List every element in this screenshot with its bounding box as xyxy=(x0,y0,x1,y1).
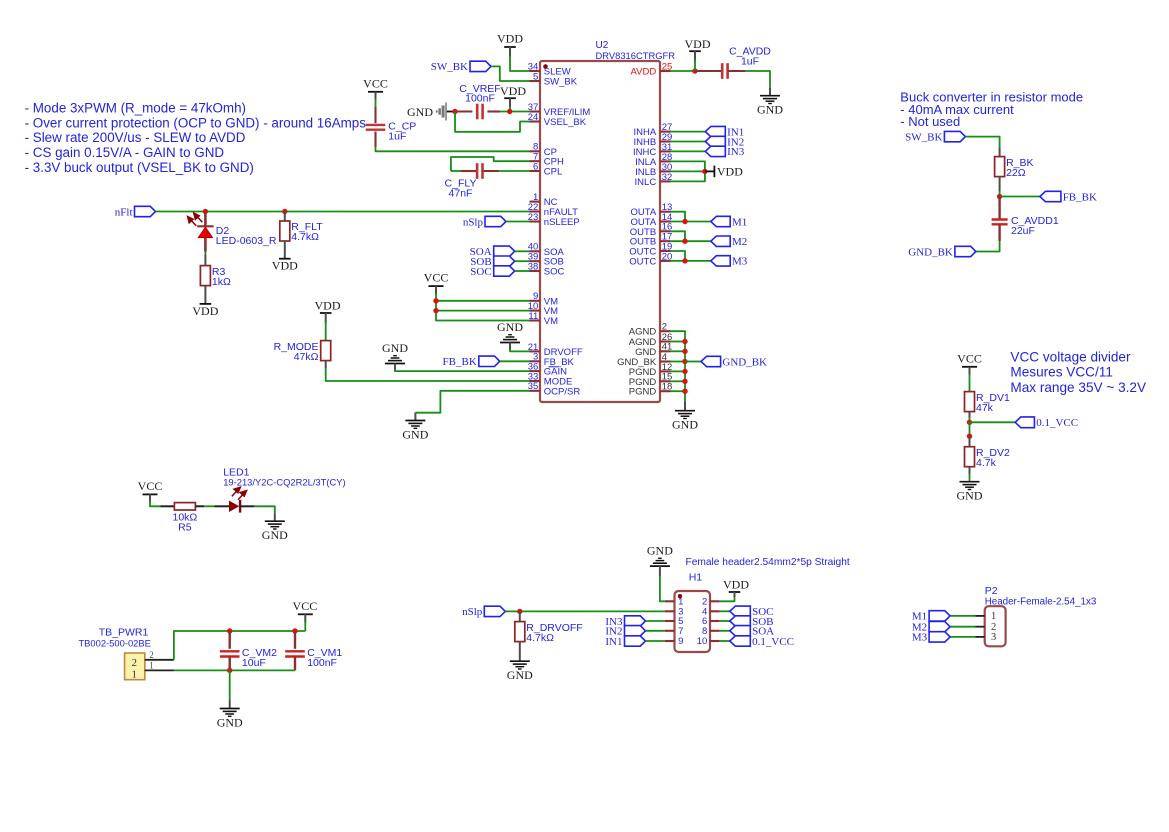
capacitor C_AVDD1 22uF xyxy=(992,215,1059,237)
resistor R_DV2 4.7k xyxy=(965,447,1011,469)
net flag SOB (H1) xyxy=(730,616,774,628)
wire H1 pin 4 to flag SOC xyxy=(720,610,730,612)
svg-text:GND_BK: GND_BK xyxy=(722,356,767,368)
svg-text:DRV8316CTRGFR: DRV8316CTRGFR xyxy=(596,50,676,61)
resistor R5 10k xyxy=(173,503,198,534)
wire GND bus to GND_BK flag xyxy=(685,361,701,363)
wire H1 pin 8 to flag SOA xyxy=(720,630,730,632)
note text block: buck converter xyxy=(900,90,1083,130)
svg-text:SW_BK: SW_BK xyxy=(544,77,578,88)
U2 pin 30 INLB xyxy=(635,162,672,178)
wire VDD to U2 pin 34 SLEW xyxy=(510,55,530,71)
svg-text:VDD: VDD xyxy=(315,299,341,313)
wire C_FLY left xyxy=(451,170,461,172)
wire SOC to U2 xyxy=(515,270,530,272)
wire H1 pin 2 to VDD xyxy=(720,597,735,601)
net flag IN2 (H1) xyxy=(605,626,645,638)
U2 pin 29 INHB xyxy=(633,132,672,148)
wire VCC to R5 xyxy=(150,500,161,506)
svg-text:1: 1 xyxy=(149,660,154,670)
svg-text:LED-0603_R: LED-0603_R xyxy=(216,235,277,247)
net flag M2 xyxy=(711,236,747,248)
wire nSlp to U2 pin 23 nSLEEP xyxy=(506,221,530,223)
svg-text:VCC: VCC xyxy=(363,76,388,90)
svg-text:GND: GND xyxy=(507,668,533,682)
svg-text:Female header2.54mm2*5p Straig: Female header2.54mm2*5p Straight xyxy=(686,557,850,568)
junction (0.1_VCC) xyxy=(967,420,972,425)
svg-text:VCC: VCC xyxy=(957,351,982,365)
wire divider mid xyxy=(969,422,971,436)
wire H1 pin 10 to flag 0.1_VCC xyxy=(720,640,730,642)
U2 pin 36 GAIN xyxy=(528,362,567,378)
wire VM pin 9 xyxy=(436,300,530,302)
wire GND arrow to C_VREF xyxy=(455,110,472,112)
svg-text:nSlp: nSlp xyxy=(462,606,483,618)
junction (GND bus pin 26) xyxy=(682,339,687,344)
wire U2 pin 30 INLB xyxy=(671,170,705,172)
svg-text:Mesures VCC/11: Mesures VCC/11 xyxy=(1010,365,1113,380)
svg-text:- Slew rate 200V/us - SLEW to: - Slew rate 200V/us - SLEW to AVDD xyxy=(25,130,246,145)
wire C_AVDD to GND xyxy=(745,71,770,88)
U2 pin 6 CPL xyxy=(530,161,563,177)
H1 pin 8 xyxy=(702,626,720,637)
svg-text:GND: GND xyxy=(497,320,523,334)
wire U2 pin 18 to GND bus xyxy=(671,390,686,392)
svg-text:VDD: VDD xyxy=(272,259,298,273)
junction (VM 10) xyxy=(433,308,438,313)
leg C_VM1 top xyxy=(294,631,296,649)
U2 pin 41 GND xyxy=(635,342,672,358)
P2 pin 1 xyxy=(976,611,997,622)
junction (GND bus pin 15) xyxy=(682,379,687,384)
P2 pin 2 xyxy=(976,622,997,633)
leg R_FLT bottom xyxy=(284,241,286,259)
net flag IN2 xyxy=(705,136,744,148)
connector TB_PWR1 TB002-500-02BE xyxy=(78,627,150,681)
wire U2 pin 12 to GND bus xyxy=(671,370,686,372)
ground GND (DRVOFF) xyxy=(497,320,523,351)
wire D2 to R3 xyxy=(204,252,206,255)
svg-text:H1: H1 xyxy=(689,572,703,584)
net flag nSlp (U2) xyxy=(463,216,506,228)
ground GND (R_DRVOFF) xyxy=(507,661,533,682)
capacitor C_VM1 100nF xyxy=(285,647,342,669)
U2 pin 24 VSEL_BK xyxy=(528,112,587,128)
leg C_AVDD right xyxy=(728,70,746,72)
svg-text:VCC: VCC xyxy=(138,479,163,493)
note text block: configuration notes xyxy=(25,100,367,175)
U2 pin 5 SW_BK xyxy=(530,71,578,87)
leg R_DV2 bottom xyxy=(969,467,971,474)
wire U2 pin 13 OUT to junction xyxy=(671,212,686,222)
junction (VM 9) xyxy=(433,298,438,303)
net flag M2 (P2) xyxy=(912,622,950,634)
svg-text:GND: GND xyxy=(647,544,673,558)
svg-text:INLC: INLC xyxy=(635,177,657,188)
svg-text:GND: GND xyxy=(382,341,408,355)
svg-text:1kΩ: 1kΩ xyxy=(212,276,231,288)
wire VCC to R_DV1 xyxy=(969,374,971,392)
H1 pin 10 xyxy=(697,636,720,647)
wire FB_BK to U2 pin 3 xyxy=(500,360,530,362)
ground GND (GAIN) xyxy=(382,341,408,371)
wire U2 pin 26 to GND bus xyxy=(671,341,686,343)
net flag nFlt xyxy=(115,206,156,218)
TB_PWR1 pin 1 xyxy=(145,660,174,670)
wire R_DV2 to GND xyxy=(969,474,971,482)
power VCC (VM) xyxy=(424,271,449,295)
svg-text:SOC: SOC xyxy=(470,266,491,278)
junction (GND bus pin 12) xyxy=(682,369,687,374)
net flag SW_BK (buck) xyxy=(905,131,965,143)
power VDD (SLEW) xyxy=(497,32,523,58)
wire R_MODE to U2 pin 33 MODE xyxy=(326,368,530,381)
H1 pin 1 xyxy=(665,597,684,608)
svg-text:Max range 35V ~ 3.2V: Max range 35V ~ 3.2V xyxy=(1010,380,1146,395)
leg C_VM2 top xyxy=(228,631,230,649)
junction (OUT M1) xyxy=(682,219,687,224)
U2 pin 22 nFAULT xyxy=(528,202,578,218)
leg R_BK bottom xyxy=(999,177,1001,191)
U2 pin 37 VREF/ILIM xyxy=(528,102,591,118)
svg-text:SOC: SOC xyxy=(544,267,565,278)
leg R_DRVOFF top xyxy=(519,611,521,621)
wire U2 pin 15 to GND bus xyxy=(671,380,686,382)
ground GND (LED1) xyxy=(262,513,288,542)
wire junction to 0.1_VCC flag xyxy=(970,421,1016,423)
svg-text:PGND: PGND xyxy=(629,387,657,398)
junction (C_VM2 top) xyxy=(227,628,232,633)
power VDD (VREF) xyxy=(500,84,526,108)
svg-text:47nF: 47nF xyxy=(449,187,473,199)
wire TB pin2 to VM rail xyxy=(174,631,305,660)
svg-text:VM: VM xyxy=(544,316,558,327)
resistor R_MODE 47k xyxy=(274,341,331,363)
svg-text:10: 10 xyxy=(697,636,708,647)
leg R_DV1 bottom xyxy=(969,412,971,418)
ground GND (C_AVDD) xyxy=(757,88,783,117)
resistor R3 1k xyxy=(200,266,231,288)
svg-text:M2: M2 xyxy=(732,236,747,248)
wire CPH loop xyxy=(451,157,530,171)
svg-text:11: 11 xyxy=(528,311,538,322)
svg-text:VSEL_BK: VSEL_BK xyxy=(544,117,587,128)
net flag SW_BK xyxy=(431,61,491,73)
H1 pin 6 xyxy=(702,616,720,627)
U2 pin 21 DRVOFF xyxy=(528,342,583,358)
leg R5 right xyxy=(195,505,204,507)
wire to U2 pin 37 VREF/ILIM xyxy=(500,111,530,113)
power VCC (divider) xyxy=(957,351,982,375)
U2 pin 9 VM xyxy=(530,291,559,307)
leg R_BK top xyxy=(999,148,1001,157)
wire R_DV1 to junction xyxy=(969,418,971,423)
wire U2 pin 35 OCP/SR to GND xyxy=(415,391,529,413)
U2 pin 27 INHA xyxy=(633,122,672,138)
P2 pin 3 xyxy=(976,632,997,643)
junction (OUT M2) xyxy=(682,239,687,244)
U2 pin 34 SLEW xyxy=(528,61,571,77)
net flag FB_BK (buck) xyxy=(1040,191,1097,203)
junction (D2) xyxy=(203,209,208,214)
svg-text:3: 3 xyxy=(991,632,996,643)
svg-text:100nF: 100nF xyxy=(465,93,495,105)
svg-text:GND_BK: GND_BK xyxy=(908,246,953,258)
svg-text:M3: M3 xyxy=(732,256,748,268)
junction (VREF right) xyxy=(507,109,512,114)
svg-text:VDD: VDD xyxy=(500,84,526,98)
net flag M1 xyxy=(711,216,747,228)
net flag GND_BK xyxy=(701,356,767,368)
net flag IN1 (H1) xyxy=(605,636,645,648)
U2 pin 14 OUTA xyxy=(631,212,673,228)
wire M1 to P2 pin 1 xyxy=(950,615,975,617)
svg-text:IN3: IN3 xyxy=(727,146,745,158)
svg-text:GND: GND xyxy=(672,418,698,432)
wire LED1 to GND xyxy=(254,506,274,513)
svg-text:TB002-500-02BE: TB002-500-02BE xyxy=(78,638,150,649)
svg-text:10uF: 10uF xyxy=(242,657,266,669)
svg-text:- Mode 3xPWM (R_mode = 47kOmh): - Mode 3xPWM (R_mode = 47kOmh) xyxy=(25,100,246,115)
net flag 0.1_VCC (H1) xyxy=(730,636,794,648)
H1 pin 5 xyxy=(665,616,684,627)
wire IN2 to H1 xyxy=(646,630,665,632)
leg C_FLY left xyxy=(461,170,477,172)
U2 pin-1 marker xyxy=(543,64,548,69)
wire U2 pin 29 INHB xyxy=(671,141,706,143)
wire VSEL_BK loop to U2 pin 24 xyxy=(455,112,530,132)
svg-text:SW_BK: SW_BK xyxy=(905,131,942,143)
wire U2 pin 28 INLA xyxy=(671,161,705,181)
svg-text:1: 1 xyxy=(131,669,137,681)
power VDD (below R_FLT) xyxy=(272,259,298,273)
U2 pin 19 OUTC xyxy=(629,241,672,257)
U2 pin 39 SOB xyxy=(528,252,564,268)
TB_PWR1 pin 2 xyxy=(145,650,174,660)
svg-text:FB_BK: FB_BK xyxy=(1063,191,1097,203)
H1 pin 4 xyxy=(702,607,720,618)
capacitor C_FLY 47nF xyxy=(445,163,483,199)
svg-text:GND: GND xyxy=(407,105,433,119)
U2 pin 8 CP xyxy=(530,142,558,158)
U2 pin 35 OCP/SR xyxy=(528,381,581,397)
svg-text:47k: 47k xyxy=(976,402,994,414)
svg-text:nSLEEP: nSLEEP xyxy=(544,217,580,228)
svg-text:VDD: VDD xyxy=(192,304,218,318)
power VDD (H1) xyxy=(723,578,749,598)
U2 pin 10 VM xyxy=(528,301,558,317)
U2 pin 28 INLA xyxy=(635,152,672,168)
svg-text:GND: GND xyxy=(217,716,243,730)
H1 pin 2 xyxy=(702,597,720,608)
svg-text:SW_BK: SW_BK xyxy=(431,61,468,73)
svg-text:VDD: VDD xyxy=(723,578,749,592)
net flag IN3 (H1) xyxy=(605,616,645,628)
wire GND to H1 pin 1 xyxy=(660,576,665,601)
net flag FB_BK (U2) xyxy=(443,356,500,368)
capacitor C_VM2 10uF xyxy=(220,647,277,669)
svg-text:2: 2 xyxy=(131,657,137,669)
U2 pin 15 PGND xyxy=(629,372,673,388)
U2 pin 12 PGND xyxy=(629,362,673,378)
net flag M3 xyxy=(711,256,748,268)
svg-text:GND: GND xyxy=(957,489,983,503)
U2 pin 4 GND_BK xyxy=(617,352,670,368)
wire nFlt to U2 pin 22 nFAULT xyxy=(156,211,530,213)
wire TB pin1 rail xyxy=(174,669,295,671)
net flag 0.1_VCC xyxy=(1015,417,1078,429)
U2 pin 32 INLC xyxy=(635,172,673,188)
power VDD (AVDD) xyxy=(685,37,711,61)
leg C_FLY right xyxy=(483,170,500,172)
wire SOA to U2 xyxy=(515,250,530,252)
resistor R_DRVOFF 4.7k xyxy=(515,622,583,644)
junction (C_VM1 top) xyxy=(292,628,297,633)
U2 pin 16 OUTB xyxy=(630,222,672,238)
svg-text:P2: P2 xyxy=(985,585,998,597)
svg-text:22Ω: 22Ω xyxy=(1006,167,1026,179)
svg-text:6: 6 xyxy=(533,161,538,172)
wire VCC to VM pins xyxy=(436,293,530,321)
wire VCC stub to rail xyxy=(304,622,306,631)
svg-text:R5: R5 xyxy=(178,522,192,534)
leg R5 left xyxy=(161,505,175,507)
U2 pin 20 OUTC xyxy=(629,251,672,267)
leg C_AVDD1 bottom xyxy=(998,224,1000,241)
U2 pin 40 SOA xyxy=(528,242,565,258)
power VCC (LED1) xyxy=(138,479,163,503)
svg-text:nSlp: nSlp xyxy=(463,216,484,228)
leg C_AVDD left xyxy=(695,70,722,72)
leg C_AVDD1 top xyxy=(998,197,1000,220)
resistor R_DV1 47k xyxy=(965,392,1011,414)
wire VM pin 10 xyxy=(436,310,530,312)
connector H1 female header 2x5 xyxy=(675,557,850,652)
junction (R_FLT) xyxy=(282,209,287,214)
power VDD (R_MODE) xyxy=(315,299,341,324)
ground GND (divider) xyxy=(957,482,983,503)
svg-text:4.7kΩ: 4.7kΩ xyxy=(291,231,319,243)
wire IN3 to H1 xyxy=(646,620,665,622)
net flag SOA (U2) xyxy=(470,246,515,258)
wire U2 pin 14 OUT to flag M1 xyxy=(671,221,711,223)
svg-text:M1: M1 xyxy=(732,216,747,228)
power VCC (C_CP) xyxy=(363,76,388,100)
svg-text:M3: M3 xyxy=(912,632,928,644)
leg R_DRVOFF bottom xyxy=(519,642,521,662)
leg R_DV2 top xyxy=(969,436,971,447)
U2 pin 18 PGND xyxy=(629,382,673,398)
svg-text:Header-Female-2.54_1x3: Header-Female-2.54_1x3 xyxy=(985,597,1097,608)
LED D2 LED-0603_R xyxy=(188,212,277,252)
svg-text:- CS gain 0.15V/A - GAIN to GN: - CS gain 0.15V/A - GAIN to GND xyxy=(25,145,225,160)
leg VCC to C_CP top xyxy=(374,107,376,123)
wire U2 pin 4 to GND bus xyxy=(671,361,686,363)
net flag IN1 xyxy=(705,126,744,138)
svg-text:9: 9 xyxy=(678,636,683,647)
U2 pin 2 AGND xyxy=(629,322,671,338)
svg-text:VCC voltage divider: VCC voltage divider xyxy=(1010,350,1131,365)
svg-text:GND: GND xyxy=(262,528,288,542)
junction (INL) xyxy=(702,169,707,174)
capacitor C_AVDD 1uF xyxy=(722,46,771,79)
ground GND (OCP) xyxy=(402,413,428,442)
wire R_BK to junction xyxy=(999,191,1001,197)
svg-text:VDD: VDD xyxy=(717,164,743,178)
svg-text:IN1: IN1 xyxy=(605,636,622,648)
H1 pin 7 xyxy=(665,626,684,637)
leg R_MODE bottom xyxy=(325,361,327,368)
wire SOB to U2 xyxy=(515,260,530,262)
wire C_FLY to U2 pin 6 CPL xyxy=(499,170,529,172)
U2 pin 31 INHC xyxy=(633,142,672,158)
svg-text:2: 2 xyxy=(149,650,154,660)
wire rail to GND xyxy=(229,670,231,701)
wire R5 to LED1 xyxy=(204,505,214,507)
svg-text:VDD: VDD xyxy=(685,37,711,51)
wire junction to FB_BK flag xyxy=(1000,196,1040,198)
U2 pin 26 AGND xyxy=(629,332,673,348)
svg-text:0.1_VCC: 0.1_VCC xyxy=(1036,417,1078,429)
ground GND (U2 bottom) xyxy=(672,401,698,431)
wire SW_BK to R_BK xyxy=(965,137,999,148)
leg R3 bottom xyxy=(204,286,206,304)
junction (GND bus pin 4) xyxy=(682,359,687,364)
svg-text:100nF: 100nF xyxy=(307,657,337,669)
wire VDD stub to VREF net xyxy=(509,106,511,112)
capacitor C_CP 1uF xyxy=(366,121,417,143)
svg-text:22uF: 22uF xyxy=(1011,225,1035,237)
junction (R_DRVOFF) xyxy=(517,609,522,614)
net flag SOC (U2) xyxy=(470,266,514,278)
wire nSlp to H1 pin 3 xyxy=(505,610,664,612)
svg-text:- Over current protection (OCP: - Over current protection (OCP to GND) -… xyxy=(25,115,367,130)
svg-text:1: 1 xyxy=(991,611,996,622)
svg-text:CPL: CPL xyxy=(544,167,562,178)
LED LED1 19-213/Y2C-CQ2R2L/3T(CY) xyxy=(215,467,346,513)
capacitor C_VREF 100nF xyxy=(459,83,500,120)
svg-text:GND: GND xyxy=(757,103,783,117)
svg-text:1uF: 1uF xyxy=(741,55,759,67)
wire U2 pin 17 OUT to flag M2 xyxy=(671,240,711,242)
wire M3 to P2 pin 3 xyxy=(950,636,975,638)
op IC U2 DRV8316CTRGFR body xyxy=(540,40,675,402)
leg C_VM1 bottom xyxy=(294,657,296,671)
wire U2 pin 20 OUT to flag M3 xyxy=(671,260,711,262)
net flag nSlp (H1) xyxy=(462,606,505,618)
net flag SOC (H1) xyxy=(730,606,774,618)
junction (AVDD) xyxy=(692,68,697,73)
power VDD (below R3) xyxy=(192,304,218,318)
U2 pin 38 SOC xyxy=(528,261,565,277)
svg-text:OUTC: OUTC xyxy=(629,256,656,267)
junction (GND rail) xyxy=(227,668,232,673)
svg-text:0.1_VCC: 0.1_VCC xyxy=(752,636,794,648)
connector P2 Header-Female-2.54_1x3 xyxy=(985,585,1097,646)
svg-text:4.7k: 4.7k xyxy=(976,457,997,469)
leg R3 top xyxy=(204,255,206,266)
svg-text:- 3.3V buck output (VSEL_BK to: - 3.3V buck output (VSEL_BK to GND) xyxy=(25,160,254,175)
U2 pin 3 FB_BK xyxy=(530,352,575,368)
net flag GND_BK (buck) xyxy=(908,246,976,258)
junction (VREF left) xyxy=(452,109,457,114)
wire U2 pin 27 INHA xyxy=(671,131,706,133)
net flag M1 (P2) xyxy=(912,611,950,623)
ground GND (VREF, arrow style) xyxy=(407,103,455,121)
svg-text:nFlt: nFlt xyxy=(115,206,133,218)
wire IN1 to H1 xyxy=(646,640,665,642)
resistor R_FLT 4.7k xyxy=(280,221,323,243)
